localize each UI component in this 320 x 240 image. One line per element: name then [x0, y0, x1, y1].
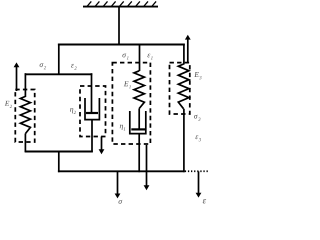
label eta1 [120, 125, 125, 131]
arrow epsilon direction (up, right side) [185, 35, 191, 63]
wire: rod from E3 to bottom bar [183, 109, 185, 172]
wire: bottom bar [58, 170, 185, 172]
spring E3 (right spring) [178, 64, 189, 109]
label sigma [119, 200, 123, 204]
wire: stem from wall [118, 7, 120, 45]
wire: right corner drop from top bar [183, 44, 185, 65]
dashpot eta1 rod from spring [138, 109, 140, 130]
fixed wall (hatched support) [83, 1, 158, 7]
label E1 [124, 81, 131, 88]
arrow below Maxwell box (down) [144, 145, 150, 190]
dashed box around eta2 [80, 86, 106, 137]
arrow epsilon (down, right) [196, 171, 202, 197]
wire: drop from third bar to bottom bar [58, 152, 60, 173]
label sigma_1 [122, 53, 128, 59]
dashpot eta2 cylinder [85, 98, 99, 120]
label eta2 [70, 108, 76, 114]
arrow sigma (applied stress, down) [115, 171, 121, 198]
dashpot eta2 piston plate [86, 112, 98, 114]
wire: rod from eta1 to bottom bar [138, 134, 140, 173]
dashed box around Maxwell element [112, 63, 150, 144]
spring E2 (left Kelvin spring) [20, 73, 30, 152]
dashpot eta2 rod (bottom) [91, 120, 93, 153]
wire: Maxwell rod from top bar [139, 44, 141, 71]
label E2 [5, 101, 12, 108]
wire: second bar (Kelvin top bar) [25, 73, 93, 75]
label epsilon_2 [71, 64, 77, 70]
dashed box around E3 [170, 63, 190, 114]
label epsilon [203, 199, 206, 203]
label epsilon_3 [195, 135, 200, 141]
dashpot eta2 rod (top) [91, 73, 93, 113]
arrow below eta2 box (down) [99, 137, 105, 155]
label epsilon_1 [147, 54, 152, 60]
arrow sigma2 direction (up, left side) [14, 62, 20, 91]
dashpot eta1 piston plate [131, 128, 145, 130]
wire: left drop from top bar [58, 44, 60, 75]
label sigma_3 [194, 115, 200, 121]
spring E1 (Maxwell spring) [134, 71, 144, 109]
label E3 [194, 72, 201, 79]
label sigma_2 [40, 63, 46, 69]
dashpot eta1 cylinder [130, 111, 146, 134]
wire: third bar (Kelvin bottom bar) [25, 151, 93, 153]
wire: dotted extension of bottom bar [185, 170, 210, 172]
wire: top bar [58, 44, 185, 46]
dashed box around E2 [15, 90, 34, 143]
